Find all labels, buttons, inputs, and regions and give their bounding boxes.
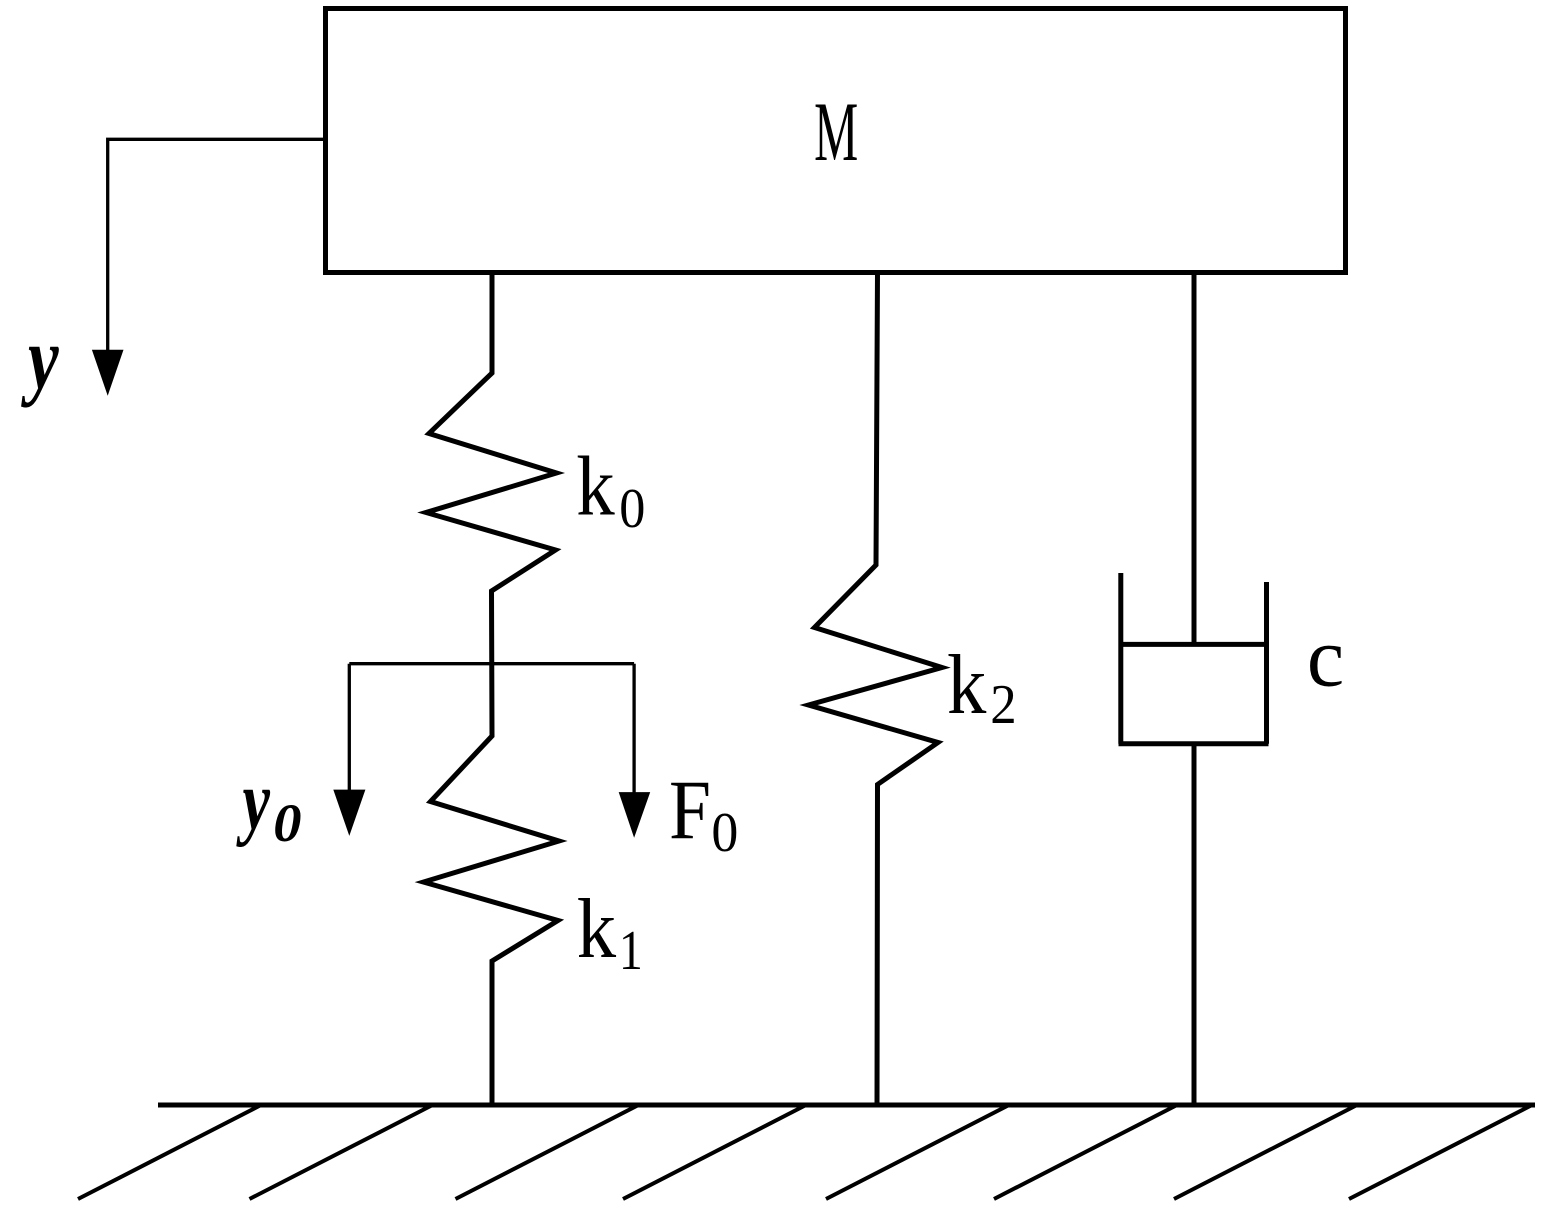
svg-text:0: 0 [619,478,645,540]
svg-text:M: M [814,85,858,179]
svg-text:0: 0 [711,801,738,863]
svg-text:1: 1 [619,921,643,982]
svg-text:k: k [576,439,615,533]
svg-text:F: F [669,763,711,857]
svg-text:c: c [1307,611,1344,705]
svg-text:k: k [947,637,986,731]
svg-text:k: k [577,881,616,975]
svg-text:0: 0 [273,793,301,853]
svg-text:2: 2 [990,674,1016,736]
